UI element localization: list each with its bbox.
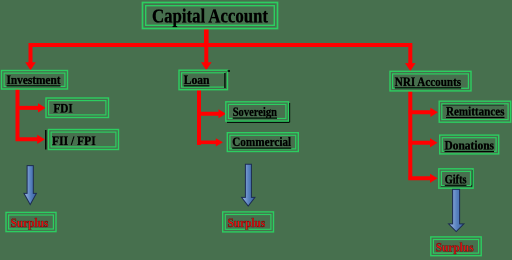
wire: Loan column stem xyxy=(197,90,201,146)
svg-text:Surplus: Surplus xyxy=(436,240,474,255)
speck at Loan box top-right xyxy=(228,70,230,72)
svg-text:Investment: Investment xyxy=(7,72,62,87)
wire: red drop from Capital Account to main horizontal rail xyxy=(204,29,209,46)
svg-text:Capital Account: Capital Account xyxy=(152,6,268,28)
box: FDI xyxy=(46,98,109,118)
svg-text:FDI: FDI xyxy=(53,100,72,115)
blue block arrow: Loan column xyxy=(242,164,255,206)
wire: arrow to Remittances xyxy=(408,108,438,117)
svg-text:Surplus: Surplus xyxy=(11,215,49,230)
box: Surplus (left) xyxy=(6,212,56,231)
box: Loan xyxy=(179,70,228,90)
box: Investment xyxy=(2,71,68,90)
wire: red drop-arrow into Loan xyxy=(201,45,212,70)
svg-text:FII / FPI: FII / FPI xyxy=(52,133,96,148)
wire: arrow to Donations xyxy=(408,138,437,147)
box: Capital Account xyxy=(143,3,278,29)
wire: main horizontal red rail xyxy=(29,43,413,47)
box: Gifts xyxy=(439,169,473,188)
svg-text:Donations: Donations xyxy=(445,138,495,153)
box: NRI Accounts xyxy=(390,71,471,91)
box: Remittances xyxy=(439,101,511,122)
wire: arrow to Gifts xyxy=(408,174,437,183)
wire: Investment column stem xyxy=(16,89,20,142)
svg-text:Commercial: Commercial xyxy=(232,134,291,149)
box: Donations xyxy=(440,135,499,154)
wire: NRI column stem xyxy=(408,91,412,180)
svg-text:Surplus: Surplus xyxy=(228,215,266,230)
svg-text:Remittances: Remittances xyxy=(446,104,505,119)
wire: arrow to Commercial xyxy=(197,138,223,146)
wire: arrow to FDI xyxy=(16,103,46,112)
svg-text:NRI Accounts: NRI Accounts xyxy=(395,74,461,89)
wire: red drop-arrow into NRI Accounts xyxy=(405,45,416,71)
box: Sovereign xyxy=(226,102,290,122)
cursor mark inside right of Loan box xyxy=(224,73,226,88)
wire: red drop-arrow into Investment xyxy=(25,45,36,70)
svg-text:Loan: Loan xyxy=(184,72,210,87)
wire: arrow to Sovereign xyxy=(197,109,226,118)
wire: arrow to FII/FPI xyxy=(16,135,45,144)
svg-text:Sovereign: Sovereign xyxy=(233,104,278,119)
svg-text:Gifts: Gifts xyxy=(445,171,467,186)
box: FII / FPI xyxy=(49,130,119,150)
box: Surplus (right) xyxy=(431,237,481,256)
blue block arrow: Investment column xyxy=(24,166,36,205)
box: Surplus (middle) xyxy=(223,212,274,232)
cursor mark left of FII/FPI box xyxy=(45,130,47,150)
blue block arrow: NRI column xyxy=(449,189,464,231)
box: Commercial xyxy=(227,133,298,152)
